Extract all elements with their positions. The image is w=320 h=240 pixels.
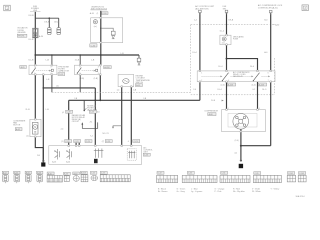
svg-text:B-0: B-0	[264, 19, 267, 21]
svg-text:DL-4: DL-4	[218, 66, 222, 68]
svg-text:3: 3	[98, 66, 99, 68]
svg-text:FUSE: FUSE	[233, 39, 239, 41]
svg-text:4: 4	[98, 73, 99, 75]
control unit box	[49, 146, 142, 165]
junction	[94, 99, 96, 101]
wire relay1 out left (to fan motor)	[34, 75, 36, 120]
svg-text:4: 4	[259, 108, 260, 110]
svg-text:V : Violet: V : Violet	[252, 187, 260, 190]
svg-text:A-02: A-02	[16, 128, 20, 131]
svg-text:1: 1	[34, 66, 35, 68]
svg-text:C-23: C-23	[65, 141, 69, 143]
svg-text:DK-B: DK-B	[229, 20, 234, 22]
svg-text:R : Red: R : Red	[233, 188, 240, 190]
svg-text:1: 1	[80, 66, 81, 68]
svg-text:3: 3	[228, 73, 229, 75]
junction	[48, 17, 50, 19]
svg-text:C-23: C-23	[106, 141, 110, 143]
svg-text:C-23: C-23	[101, 173, 105, 175]
relay coil symbol U3	[94, 149, 104, 158]
svg-text:P : Pink: P : Pink	[215, 191, 222, 193]
svg-text:2L-B: 2L-B	[75, 60, 80, 62]
connector C-103	[298, 172, 306, 182]
wire fan return	[241, 145, 271, 147]
fusible link FL3	[137, 58, 141, 65]
connector C-35	[253, 172, 281, 183]
noise filter stub	[84, 100, 87, 111]
connector A-05	[14, 171, 20, 183]
label A/C control unit	[143, 146, 152, 156]
diode isolator label	[17, 27, 28, 38]
junction	[99, 99, 101, 101]
connector stub	[199, 10, 202, 15]
svg-text:Y : Yellow: Y : Yellow	[271, 188, 280, 190]
connector A-16 grid	[47, 172, 62, 182]
svg-text:A-08: A-08	[37, 172, 41, 175]
svg-text:(A/C SWITCH): (A/C SWITCH)	[195, 7, 208, 10]
wire clutch ground	[240, 129, 242, 161]
label junction text	[72, 114, 86, 123]
svg-text:1: 1	[201, 73, 202, 75]
svg-text:0-2: 0-2	[252, 89, 255, 91]
svg-text:B : Black: B : Black	[158, 188, 166, 190]
transistor Q2	[66, 149, 71, 160]
svg-text:7: 7	[268, 80, 269, 82]
diode isolator U1	[33, 28, 39, 38]
switch ECT box	[118, 75, 134, 87]
terminal ring	[42, 160, 44, 162]
svg-text:(m): (m)	[94, 26, 97, 28]
svg-text:FR-H/L: FR-H/L	[18, 36, 25, 38]
svg-text:3: 3	[50, 66, 51, 68]
wire ECT out left	[121, 87, 123, 146]
svg-text:(1-B): (1-B)	[94, 78, 99, 80]
svg-text:A-23: A-23	[64, 173, 68, 176]
svg-text:C-23: C-23	[144, 155, 148, 157]
svg-text:A-05: A-05	[14, 172, 18, 175]
svg-text:6: 6	[268, 73, 269, 75]
svg-text:C-35: C-35	[255, 173, 259, 175]
svg-text:JUNCTION BLOCK: JUNCTION BLOCK	[91, 8, 108, 10]
svg-text:L : Blue: L : Blue	[191, 188, 199, 190]
wire feed C	[270, 15, 272, 146]
wire ground drop	[42, 148, 44, 162]
connector C-102	[287, 172, 295, 182]
svg-text:(2): (2)	[235, 152, 238, 154]
connector C-28 tag	[62, 110, 73, 114]
svg-text:C-05: C-05	[91, 173, 95, 175]
connector A-08	[37, 171, 43, 183]
svg-text:(m): (m)	[222, 43, 225, 45]
svg-text:(10: (10	[97, 112, 100, 114]
svg-text:A-16: A-16	[48, 172, 52, 175]
svg-text:A-05X: A-05X	[259, 83, 265, 86]
svg-text:C-33: C-33	[188, 173, 192, 175]
label 2L-B arrow	[211, 100, 224, 103]
svg-text:O : Orange: O : Orange	[215, 188, 226, 190]
svg-text:G : Green: G : Green	[177, 188, 186, 190]
junction	[43, 87, 45, 89]
connector C-33	[182, 171, 217, 182]
svg-text:A-16: A-16	[90, 12, 94, 15]
label noise filter text	[58, 67, 70, 76]
svg-text:DL-4: DL-4	[220, 31, 224, 33]
compressor box	[222, 110, 266, 132]
node UNDER-HOOD FUSE BOX label	[91, 6, 108, 10]
connector stub	[225, 10, 228, 15]
svg-text:C-05: C-05	[59, 74, 63, 76]
svg-text:Sb : Sky blue: Sb : Sky blue	[233, 191, 246, 193]
wire stub	[58, 18, 60, 27]
junction	[34, 54, 36, 56]
svg-text:FAN RELAY: FAN RELAY	[233, 75, 244, 78]
svg-text:C-34: C-34	[221, 173, 225, 175]
junction	[100, 54, 102, 56]
svg-text:DL-4: DL-4	[250, 66, 254, 68]
svg-text:4: 4	[228, 80, 229, 82]
component U4	[127, 149, 136, 160]
terminal ring	[240, 160, 242, 162]
svg-text:A-30: A-30	[74, 172, 78, 175]
motor M1	[30, 119, 41, 136]
svg-text:A-05X: A-05X	[104, 66, 110, 69]
fusible link FL2	[57, 28, 61, 35]
svg-text:DL-4: DL-4	[193, 52, 197, 54]
node BATTERY label	[30, 6, 41, 12]
relay K4 condenser fan motor relay	[231, 73, 271, 81]
label A-05X tag	[104, 66, 112, 69]
label relay strip text	[233, 71, 250, 78]
svg-text:5: 5	[259, 73, 260, 75]
wire relay1 out mid (ground run)	[42, 75, 44, 163]
svg-text:DK-B: DK-B	[29, 15, 35, 17]
wire relay1 out right (dashed link)	[51, 75, 53, 93]
svg-text:(4-0): (4-0)	[252, 85, 256, 87]
junction	[240, 145, 242, 147]
svg-text:1-4: 1-4	[117, 89, 120, 91]
terminal marks	[35, 17, 272, 147]
svg-text:(2-4): (2-4)	[235, 140, 239, 142]
junction	[79, 54, 81, 56]
relay K2	[75, 65, 101, 75]
svg-text:(1): (1)	[61, 141, 64, 143]
svg-text:DL-9: DL-9	[262, 89, 266, 91]
svg-text:A-04: A-04	[66, 161, 70, 164]
fuse F2	[220, 35, 231, 44]
svg-text:C-23: C-23	[90, 112, 94, 114]
svg-text:A-0: A-0	[264, 51, 267, 54]
wire center drop	[94, 88, 96, 146]
svg-text:DL-B: DL-B	[29, 39, 34, 41]
connector A-05X	[80, 171, 88, 181]
svg-text:Lg : Lt green: Lg : Lt green	[191, 190, 202, 193]
wire relay1 top stub	[51, 55, 53, 65]
fusible link FL1	[48, 28, 52, 35]
svg-text:A-06: A-06	[26, 172, 30, 175]
svg-text:C-23: C-23	[74, 141, 78, 143]
page marker 1	[4, 5, 10, 11]
svg-text:C-23: C-23	[134, 141, 138, 143]
node ignition feed label	[223, 6, 227, 10]
svg-text:4: 4	[128, 141, 129, 143]
svg-text:DK-B: DK-B	[44, 21, 49, 23]
svg-text:C-28: C-28	[66, 112, 70, 114]
svg-text:DL-4: DL-4	[218, 89, 222, 91]
wire control bus	[69, 99, 200, 101]
svg-text:1: 1	[228, 108, 229, 110]
diode D2	[111, 31, 115, 39]
compressor clutch MC1	[233, 114, 249, 130]
svg-text:CAPACITOR: CAPACITOR	[58, 70, 69, 73]
svg-text:Br : Brown: Br : Brown	[158, 191, 167, 193]
label terminal numbers	[201, 73, 268, 82]
wire fusible link branch horizontal	[35, 17, 58, 19]
connector C-23 long grid	[100, 171, 130, 181]
svg-text:A-05: A-05	[21, 66, 25, 69]
wire relay2 top stub	[79, 55, 81, 65]
svg-text:C-103: C-103	[299, 173, 304, 175]
svg-text:A-05X: A-05X	[228, 83, 234, 86]
wire relay2 out left	[79, 75, 81, 93]
connector A-06	[25, 171, 31, 183]
relay box dashed outline	[191, 25, 275, 95]
svg-text:(2): (2)	[56, 86, 59, 88]
svg-text:(2): (2)	[26, 136, 29, 138]
svg-text:CONTROLLER (A-31): CONTROLLER (A-31)	[258, 6, 278, 9]
wire feed B	[226, 14, 228, 109]
wire drop to C-28	[68, 100, 70, 145]
svg-text:(4: (4	[62, 112, 64, 114]
wire stub	[48, 18, 50, 27]
label A-05 tag	[20, 65, 27, 68]
svg-text:2L-B: 2L-B	[25, 109, 30, 111]
wire bus end drop	[138, 55, 140, 58]
page marker 2	[302, 5, 308, 11]
connector A-30	[73, 172, 80, 181]
label A-30 arrow	[272, 24, 279, 27]
transistor Q1	[54, 149, 59, 160]
label tags above control unit	[61, 140, 140, 144]
label C-30 tag	[90, 44, 97, 48]
ground G2	[239, 164, 243, 168]
ground mark M	[94, 159, 98, 163]
label ECT switch text	[135, 76, 150, 87]
svg-text:90A-123-4: 90A-123-4	[296, 195, 305, 198]
wire branch horizontal	[43, 87, 95, 89]
svg-text:A-30: A-30	[275, 24, 279, 27]
svg-text:NO. 23: NO. 23	[103, 133, 109, 135]
connector stub	[269, 10, 272, 15]
svg-text:A-08: A-08	[209, 113, 213, 116]
svg-text:C-102: C-102	[288, 173, 293, 175]
svg-text:2: 2	[201, 80, 202, 82]
node condenser fan feed label	[258, 4, 283, 9]
junction	[51, 54, 53, 56]
connector A-02	[2, 171, 8, 183]
wire dashed link	[52, 91, 191, 93]
svg-text:(7): (7)	[102, 141, 105, 143]
wire fan relay out	[257, 82, 259, 110]
svg-text:C-23: C-23	[86, 141, 90, 143]
svg-text:W : White: W : White	[252, 190, 262, 193]
svg-text:DL-B: DL-B	[29, 60, 34, 62]
svg-text:CIRCUIT: CIRCUIT	[72, 121, 80, 123]
svg-text:(2-0): (2-0)	[221, 85, 225, 87]
label fan motor text	[13, 120, 26, 131]
connector A-23	[63, 172, 70, 181]
svg-text:Gr : Gray: Gr : Gray	[177, 191, 185, 193]
label NOISE FILTER	[87, 104, 97, 111]
junction	[100, 27, 102, 29]
junction	[226, 58, 228, 60]
connector C-23 tag	[89, 110, 99, 113]
wire branch to relay	[227, 59, 258, 71]
wire battery feed vertical	[34, 12, 36, 65]
wire feed A	[199, 14, 201, 100]
svg-text:C-32: C-32	[158, 173, 162, 175]
svg-text:A-23: A-23	[52, 161, 56, 164]
svg-text:COMPRESSOR: COMPRESSOR	[204, 111, 218, 113]
wire noise pigtail	[81, 122, 97, 128]
svg-text:A-02: A-02	[3, 172, 7, 175]
node A/C switch feed label	[195, 5, 215, 10]
svg-text:7-4: 7-4	[90, 135, 93, 137]
connector C-32	[157, 171, 178, 182]
svg-text:1-4: 1-4	[194, 20, 197, 22]
svg-text:M: M	[34, 126, 36, 129]
wire motor ground	[35, 137, 43, 148]
wire internal	[101, 28, 113, 31]
svg-text:MOTOR: MOTOR	[13, 125, 21, 127]
connector C-34	[220, 171, 250, 182]
svg-text:(BEHIND: (BEHIND	[18, 32, 27, 34]
svg-text:2-4: 2-4	[61, 128, 64, 130]
relay strip box	[197, 71, 275, 82]
legend wire colours	[158, 187, 280, 193]
ground G1	[41, 162, 45, 166]
label dedicated fuse	[233, 35, 244, 40]
svg-text:(1: (1	[97, 13, 99, 15]
svg-text:DK-B: DK-B	[54, 21, 59, 23]
label A-05X tags below strip	[221, 83, 267, 87]
wire ECT out right	[130, 87, 132, 146]
svg-text:2-4: 2-4	[193, 89, 196, 91]
label compressor text	[204, 111, 218, 117]
connector C-05	[90, 171, 97, 180]
compressor inner frame	[228, 113, 257, 127]
svg-text:A-05X: A-05X	[81, 172, 87, 175]
wire fuse box feed	[100, 11, 102, 65]
svg-text:C-30: C-30	[102, 13, 106, 15]
label pointer	[103, 126, 122, 135]
wire relay2 out right	[99, 75, 101, 101]
wire stub pair	[76, 143, 79, 146]
fuse F1	[93, 20, 97, 24]
fuse box B1	[91, 18, 123, 43]
svg-text:A-05: A-05	[136, 84, 140, 87]
relay K1	[29, 65, 57, 75]
relay K3 A/C compressor relay	[202, 73, 229, 81]
wire main bus	[35, 54, 139, 56]
